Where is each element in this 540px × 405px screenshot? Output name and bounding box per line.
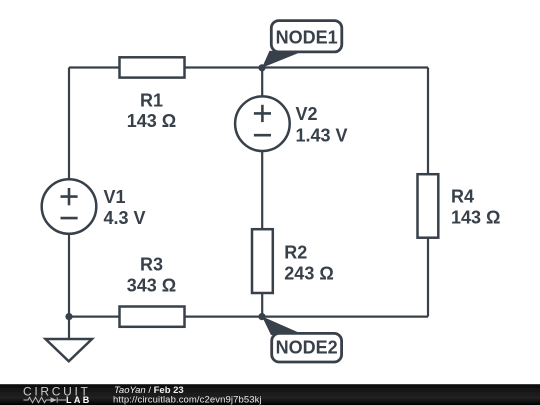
- svg-text:V2: V2: [296, 104, 318, 124]
- svg-text:143 Ω: 143 Ω: [451, 207, 500, 227]
- svg-text:R4: R4: [451, 186, 474, 206]
- svg-text:http://circuitlab.com/c2evn9j7: http://circuitlab.com/c2evn9j7b53kj: [113, 394, 262, 405]
- svg-text:143 Ω: 143 Ω: [127, 111, 176, 131]
- svg-text:NODE2: NODE2: [276, 337, 338, 357]
- svg-text:NODE1: NODE1: [276, 28, 338, 48]
- svg-text:LAB: LAB: [66, 395, 92, 405]
- svg-text:R1: R1: [140, 90, 163, 110]
- svg-text:R3: R3: [140, 255, 163, 275]
- svg-text:343 Ω: 343 Ω: [127, 275, 176, 295]
- svg-text:243 Ω: 243 Ω: [284, 264, 333, 284]
- svg-text:V1: V1: [104, 187, 126, 207]
- svg-text:4.3 V: 4.3 V: [104, 208, 146, 228]
- svg-text:R2: R2: [284, 243, 307, 263]
- svg-text:1.43 V: 1.43 V: [296, 125, 348, 145]
